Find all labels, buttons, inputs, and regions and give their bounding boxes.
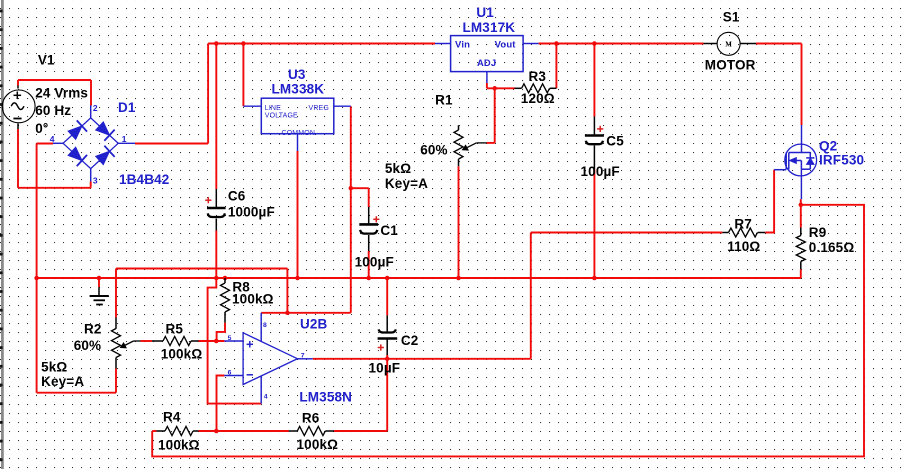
svg-text:M: M <box>725 41 732 49</box>
svg-text:0°: 0° <box>35 121 48 136</box>
svg-text:R3: R3 <box>529 69 547 84</box>
svg-text:100kΩ: 100kΩ <box>158 438 200 453</box>
svg-text:R2: R2 <box>84 322 102 337</box>
svg-text:10µF: 10µF <box>369 361 401 376</box>
svg-text:60%: 60% <box>74 338 101 353</box>
svg-text:100µF: 100µF <box>581 164 620 179</box>
svg-text:100kΩ: 100kΩ <box>232 292 274 307</box>
svg-text:R4: R4 <box>163 410 181 425</box>
svg-text:MOTOR: MOTOR <box>705 58 756 73</box>
svg-text:C5: C5 <box>606 134 624 149</box>
svg-text:C6: C6 <box>228 189 246 204</box>
svg-text:110Ω: 110Ω <box>727 239 760 254</box>
svg-text:C2: C2 <box>401 333 419 348</box>
svg-text:0.165Ω: 0.165Ω <box>809 240 855 255</box>
svg-text:Q2: Q2 <box>819 139 837 154</box>
svg-text:VOLTAGE: VOLTAGE <box>265 113 298 120</box>
svg-text:100kΩ: 100kΩ <box>161 347 203 362</box>
svg-text:U3: U3 <box>288 67 306 82</box>
svg-text:LM317K: LM317K <box>463 20 516 35</box>
svg-text:Vout: Vout <box>495 39 517 50</box>
svg-text:1: 1 <box>122 134 127 144</box>
svg-text:IRF530: IRF530 <box>819 153 864 168</box>
svg-text:3: 3 <box>93 176 98 186</box>
svg-text:60 Hz: 60 Hz <box>35 103 71 118</box>
svg-text:Key=A: Key=A <box>41 374 84 389</box>
svg-text:5kΩ: 5kΩ <box>385 161 411 176</box>
svg-text:R1: R1 <box>435 92 453 107</box>
svg-text:2: 2 <box>93 103 98 113</box>
svg-text:S1: S1 <box>723 10 740 25</box>
svg-text:R6: R6 <box>302 411 320 426</box>
svg-text:7: 7 <box>301 352 305 359</box>
svg-text:8: 8 <box>263 322 267 329</box>
svg-text:Vin: Vin <box>455 39 470 50</box>
svg-text:LM358N: LM358N <box>299 390 352 405</box>
svg-text:100µF: 100µF <box>355 255 394 270</box>
svg-text:5kΩ: 5kΩ <box>41 360 67 375</box>
svg-text:6: 6 <box>228 369 232 376</box>
svg-text:U2B: U2B <box>300 317 328 332</box>
svg-text:R7: R7 <box>734 216 752 231</box>
svg-text:5: 5 <box>228 335 232 342</box>
svg-text:C1: C1 <box>380 223 398 238</box>
svg-text:LM338K: LM338K <box>272 82 325 97</box>
svg-text:100kΩ: 100kΩ <box>297 437 339 452</box>
svg-text:4: 4 <box>50 134 55 144</box>
svg-text:ADJ: ADJ <box>477 57 496 68</box>
svg-text:D1: D1 <box>118 100 136 115</box>
svg-text:VREG: VREG <box>309 105 329 112</box>
svg-text:4: 4 <box>264 394 268 401</box>
svg-text:120Ω: 120Ω <box>521 91 555 106</box>
svg-text:Key=A: Key=A <box>385 176 428 191</box>
svg-text:60%: 60% <box>420 142 447 157</box>
svg-text:24 Vrms: 24 Vrms <box>35 86 88 101</box>
svg-text:1B4B42: 1B4B42 <box>119 172 169 187</box>
svg-text:R9: R9 <box>809 225 827 240</box>
svg-text:R5: R5 <box>166 322 184 337</box>
svg-text:1000µF: 1000µF <box>228 205 275 220</box>
svg-text:V1: V1 <box>38 53 55 68</box>
svg-text:U1: U1 <box>476 5 494 20</box>
svg-text:COMMON: COMMON <box>282 130 316 137</box>
svg-text:LINE: LINE <box>265 105 281 112</box>
